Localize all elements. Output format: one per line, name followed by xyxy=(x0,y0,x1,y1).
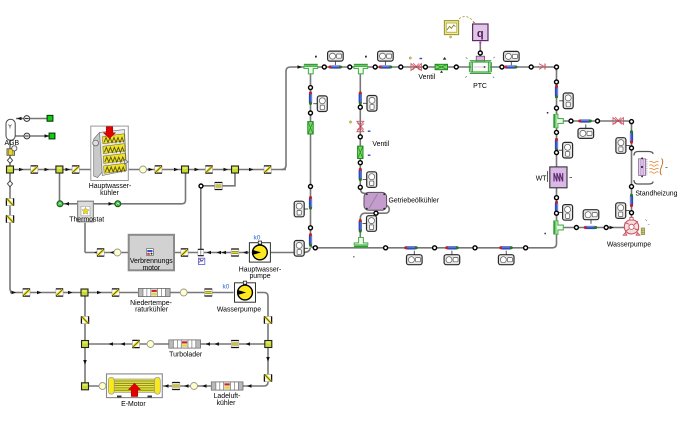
wire emotor row xyxy=(85,385,264,387)
node xyxy=(423,65,427,69)
node xyxy=(322,65,326,69)
pipe resistance xyxy=(31,166,38,173)
flow arrow xyxy=(174,168,179,172)
flow arrow xyxy=(222,251,227,255)
junction block lower xyxy=(81,289,88,296)
pipe resistance xyxy=(72,166,79,173)
table source xyxy=(444,21,475,39)
display xyxy=(578,124,594,138)
display xyxy=(363,172,377,188)
svg-text:Wasserpumpe: Wasserpumpe xyxy=(607,241,651,248)
flow arrow xyxy=(184,384,189,388)
tee to sensor x310 xyxy=(304,64,318,74)
expansion orifice xyxy=(215,183,223,190)
tee to pump branch xyxy=(553,221,563,235)
node xyxy=(555,196,559,200)
svg-text:PTC: PTC xyxy=(473,83,487,90)
gearbox oil cooler Getriebeölkühler xyxy=(364,192,387,210)
junction block expansion stub xyxy=(232,166,239,173)
svg-text:k0: k0 xyxy=(254,234,261,241)
flow arrow xyxy=(121,342,126,346)
temperature sensor xyxy=(584,226,598,229)
node xyxy=(348,65,352,69)
heat exchanger WT xyxy=(548,167,573,188)
thermostat inlet circle xyxy=(57,201,63,207)
corner junction block xyxy=(7,166,14,173)
node xyxy=(529,65,533,69)
orifice xyxy=(172,383,180,390)
node xyxy=(313,246,317,250)
svg-text:Getriebeölkühler: Getriebeölkühler xyxy=(389,198,440,205)
display xyxy=(616,203,630,219)
AGB feed pump xyxy=(7,146,17,156)
wire branch column x310 xyxy=(311,73,315,248)
arrow into inlet xyxy=(65,202,70,206)
main water pump Hauptwasserpumpe xyxy=(249,241,270,262)
pipe resistance vertical xyxy=(6,215,13,222)
check diamond xyxy=(7,181,12,187)
flow arrow xyxy=(164,384,169,388)
pipe resistance xyxy=(56,289,63,296)
temperature sensor vertical xyxy=(309,196,312,210)
wire main tee to thermostat stem xyxy=(59,170,61,201)
flow arrow xyxy=(217,251,222,255)
pipe resistance xyxy=(205,166,212,173)
wire left lower column x85 xyxy=(84,293,86,387)
flow arrow xyxy=(243,251,248,255)
flow arrow xyxy=(97,291,102,295)
pipe resistance vertical xyxy=(6,198,13,205)
display xyxy=(559,142,573,158)
node xyxy=(555,80,559,84)
temperature sensor xyxy=(504,66,518,69)
volume node xyxy=(191,383,198,390)
pipe resistance xyxy=(181,249,188,256)
temperature sensor vertical xyxy=(555,85,558,99)
display xyxy=(444,251,460,265)
node xyxy=(630,120,634,124)
signal dashed curve xyxy=(457,17,475,24)
temperature sensor xyxy=(499,246,513,249)
flow arrow xyxy=(202,384,207,388)
flow arrow xyxy=(109,342,114,346)
svg-text:WT: WT xyxy=(536,175,548,182)
temperature sensor vertical xyxy=(309,233,312,247)
svg-text:Turbolader: Turbolader xyxy=(169,352,203,359)
temperature sensor vertical xyxy=(555,201,558,215)
temperature sensor vertical xyxy=(630,130,633,144)
display xyxy=(407,251,423,265)
node xyxy=(358,135,362,139)
orifice xyxy=(231,341,239,348)
volume node xyxy=(147,341,154,348)
flow arrow xyxy=(207,251,212,255)
display xyxy=(559,205,573,221)
wire bottom return row xyxy=(314,232,557,248)
wire pump outlet to junction xyxy=(271,248,311,253)
wire thermostat to engine xyxy=(84,223,86,253)
flow arrow xyxy=(37,291,42,295)
wire AGB refill line top xyxy=(16,118,50,120)
wire right column x556 xyxy=(556,67,558,233)
green port bottom xyxy=(49,133,55,139)
check valve xyxy=(538,64,546,70)
wire heater column x631 xyxy=(631,121,633,220)
svg-text:Ventil: Ventil xyxy=(372,141,389,148)
junction block to engine return xyxy=(182,166,189,173)
wire q signal xyxy=(479,44,481,62)
node xyxy=(309,185,313,189)
flow arrow xyxy=(94,251,99,255)
wire thermostat right link xyxy=(93,170,185,204)
temperature sensor vertical xyxy=(630,194,633,208)
svg-text:motor: motor xyxy=(142,265,160,272)
wire main radiator row xyxy=(10,169,286,171)
wire turbocharger row xyxy=(85,343,268,345)
display xyxy=(313,96,327,112)
node xyxy=(309,111,313,115)
node xyxy=(569,119,573,123)
temperature sensor vertical xyxy=(359,219,362,233)
thermostat outlet circle xyxy=(115,201,121,207)
pipe resistance xyxy=(23,289,30,296)
flow arrow xyxy=(19,168,24,172)
temperature sensor vertical xyxy=(359,91,362,105)
wire expansion stub xyxy=(201,170,235,186)
low temperature cooler Niedertemperaturkühler xyxy=(138,288,170,296)
volume node xyxy=(180,289,187,296)
svg-text:AGB: AGB xyxy=(5,140,20,147)
heat flow source q xyxy=(473,24,488,44)
valve heater xyxy=(613,117,623,124)
display xyxy=(498,251,514,265)
flow arrow xyxy=(249,168,254,172)
svg-text:E-Motor: E-Motor xyxy=(121,401,146,408)
display xyxy=(616,138,630,154)
wire valve column x360 upper xyxy=(359,73,361,188)
flow arrow xyxy=(45,168,50,172)
flow arrow xyxy=(215,342,220,346)
temperature sensor vertical xyxy=(309,91,312,105)
pipe resistance vertical xyxy=(81,316,88,323)
node xyxy=(473,246,477,250)
node xyxy=(604,226,608,230)
svg-text:Thermostat: Thermostat xyxy=(69,216,104,223)
node xyxy=(373,65,377,69)
vent circle bottom xyxy=(24,133,30,139)
node xyxy=(358,161,362,165)
tee to valve x360 xyxy=(354,64,368,74)
flow arrow xyxy=(247,384,252,388)
temperature sensor vertical xyxy=(555,138,558,152)
node xyxy=(596,119,600,123)
node xyxy=(309,86,313,90)
display xyxy=(583,210,599,224)
pipe resistance xyxy=(155,166,162,173)
vent circle top xyxy=(24,116,30,122)
pipe resistance xyxy=(97,249,104,256)
pipe resistance vertical xyxy=(264,374,271,381)
svg-text:Ventil: Ventil xyxy=(418,74,435,81)
flow arrow xyxy=(206,342,211,346)
wire out of oil cooler xyxy=(360,206,389,242)
wire thermostat left link xyxy=(63,203,78,205)
charge air cooler Ladeluftkühler xyxy=(211,382,243,390)
pipe resistance xyxy=(132,340,139,347)
green block marks xyxy=(440,57,446,73)
junction block to thermostat xyxy=(56,166,63,173)
display xyxy=(504,51,520,65)
wire left column from AGB xyxy=(10,140,14,293)
valve Ventil vertical xyxy=(357,121,364,131)
junction block turbo right xyxy=(265,341,272,348)
pipe resistance xyxy=(264,166,271,173)
node xyxy=(574,226,578,230)
node xyxy=(199,184,203,188)
main radiator Hauptwasserkühler xyxy=(91,126,129,180)
green pipe block xyxy=(435,64,447,69)
node xyxy=(309,226,313,230)
svg-text:raturkühler: raturkühler xyxy=(135,307,169,314)
node xyxy=(524,246,528,250)
setpoint block xyxy=(198,258,204,264)
thermostat xyxy=(78,201,94,222)
display xyxy=(559,93,573,109)
volume node xyxy=(140,166,147,173)
expansion tank AGB xyxy=(6,119,15,140)
temperature sensor vertical xyxy=(359,168,362,182)
node xyxy=(399,65,403,69)
wire heater branch y121 xyxy=(560,121,632,125)
temperature sensor xyxy=(328,66,342,69)
wire engine row xyxy=(85,252,250,254)
node xyxy=(374,211,378,215)
volume node xyxy=(99,383,106,390)
node xyxy=(454,65,458,69)
display xyxy=(294,241,308,257)
svg-text:Wasserpumpe: Wasserpumpe xyxy=(217,306,261,313)
svg-text:q: q xyxy=(477,28,484,40)
flow arrow xyxy=(66,168,71,172)
temperature sensor xyxy=(404,246,418,249)
node xyxy=(555,106,559,110)
node xyxy=(630,185,634,189)
wire control valve column xyxy=(200,186,202,250)
flow arrow xyxy=(110,251,115,255)
PTC heater xyxy=(465,56,495,78)
junction block turbo xyxy=(82,341,89,348)
svg-text:Standheizung: Standheizung xyxy=(635,191,677,198)
water pump Wasserpumpe heater circuit xyxy=(623,217,650,235)
svg-text:k0: k0 xyxy=(223,284,230,291)
arrow into AGB xyxy=(17,117,22,121)
arrow to port xyxy=(45,134,50,138)
node xyxy=(433,246,437,250)
svg-text:kühler: kühler xyxy=(100,190,119,197)
display xyxy=(328,51,344,65)
auxiliary heater Standheizung xyxy=(634,152,668,185)
node xyxy=(500,65,504,69)
node xyxy=(555,130,559,134)
node xyxy=(358,105,362,109)
flow arrow xyxy=(12,291,17,295)
green port top xyxy=(47,115,53,121)
node xyxy=(630,211,634,215)
wire pump branch y227 xyxy=(560,227,625,229)
flow arrow xyxy=(610,226,615,230)
flow arrow xyxy=(246,342,251,346)
temperature sensor xyxy=(578,120,592,123)
wire AGB refill line bottom xyxy=(15,135,52,137)
valve actuator marks vertical xyxy=(349,121,370,156)
wire riser to top row xyxy=(282,67,557,170)
pipe resistance xyxy=(112,289,119,296)
wire low temperature row xyxy=(10,292,234,294)
pipe resistance vertical xyxy=(264,316,271,323)
node xyxy=(555,211,559,215)
display xyxy=(378,51,394,65)
node xyxy=(630,146,634,150)
orifice xyxy=(205,289,213,296)
electric motor E-Motor xyxy=(107,374,163,398)
flow arrow xyxy=(224,168,229,172)
node xyxy=(555,65,559,69)
temperature sensor xyxy=(445,246,459,249)
flow arrow xyxy=(68,291,73,295)
tee bottom row xyxy=(354,238,368,248)
wire pump to right lower column xyxy=(257,293,268,387)
valve actuator marks xyxy=(409,57,422,59)
flow arrow down xyxy=(266,357,270,362)
water pump Wasserpumpe low temperature xyxy=(235,281,256,302)
temperature sensor xyxy=(379,66,393,69)
arrow to outlet xyxy=(109,202,114,206)
node xyxy=(555,151,559,155)
engine orifice xyxy=(231,249,239,256)
valve Ventil top xyxy=(411,63,421,70)
node xyxy=(358,185,362,189)
tee port mark xyxy=(315,56,548,258)
svg-text:pumpe: pumpe xyxy=(249,273,270,280)
node xyxy=(384,246,388,250)
volume node xyxy=(114,249,121,256)
corner block emotor xyxy=(82,383,89,390)
display xyxy=(363,216,377,232)
pressure relief diamond xyxy=(7,157,12,163)
wire into oil cooler xyxy=(360,187,366,194)
flow arrow xyxy=(298,65,303,69)
flow arrow xyxy=(195,168,200,172)
green pipe block vertical xyxy=(308,122,313,134)
tee to heater branch xyxy=(553,114,563,128)
combustion engine Verbrennungsmotor xyxy=(129,235,174,270)
display xyxy=(294,201,308,217)
flow arrow down xyxy=(83,360,87,365)
display xyxy=(363,96,377,112)
node q-PTC xyxy=(478,51,482,55)
svg-text:kühler: kühler xyxy=(217,400,236,407)
green pipe block vertical xyxy=(358,146,363,158)
flow arrow xyxy=(149,168,154,172)
turbocharger Turbolader xyxy=(169,340,201,348)
engine inlet fitting xyxy=(198,249,204,255)
